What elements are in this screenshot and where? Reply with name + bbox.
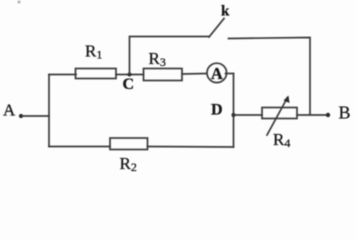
ammeter A bbox=[207, 63, 227, 82]
node C bbox=[128, 73, 132, 77]
node D bbox=[231, 113, 235, 117]
svg-text:R4: R4 bbox=[273, 130, 290, 150]
rheostat R4 box bbox=[262, 108, 297, 119]
resistor R1 bbox=[76, 69, 117, 79]
wire C up to switch bbox=[130, 37, 210, 75]
svg-text:R1: R1 bbox=[85, 42, 102, 62]
wire R1 to node C bbox=[116, 74, 144, 76]
svg-text:B: B bbox=[339, 103, 351, 123]
wire R4 to terminal B bbox=[297, 114, 328, 116]
wire right mid vertical C-D branch bbox=[233, 74, 235, 148]
svg-text:A: A bbox=[211, 64, 223, 83]
wire A to left vertical bbox=[22, 115, 49, 117]
svg-text:D: D bbox=[211, 102, 223, 119]
switch k blade bbox=[209, 19, 224, 38]
svg-text:A: A bbox=[3, 101, 16, 120]
wire ammeter to right vertical bbox=[226, 73, 234, 75]
wire top branch left segment bbox=[49, 74, 76, 76]
wire R3 to ammeter bbox=[182, 73, 207, 76]
resistor R3 bbox=[144, 69, 183, 81]
svg-text:R3: R3 bbox=[149, 49, 166, 69]
svg-text:k: k bbox=[221, 4, 230, 20]
svg-text:R2: R2 bbox=[120, 154, 137, 174]
wire R2 to D vertical bbox=[148, 146, 234, 149]
resistor R2 bbox=[110, 138, 148, 150]
wire left vertical bbox=[48, 75, 50, 147]
speck top-left bbox=[18, 1, 21, 4]
wire D to rheostat R4 bbox=[234, 114, 263, 116]
wire switch right to corner bbox=[229, 38, 311, 115]
terminal B dot bbox=[326, 113, 330, 117]
rheostat R4 arrow bbox=[267, 98, 288, 136]
wire bottom branch left bbox=[49, 146, 110, 148]
terminal A dot bbox=[19, 114, 23, 118]
svg-text:C: C bbox=[123, 76, 135, 93]
